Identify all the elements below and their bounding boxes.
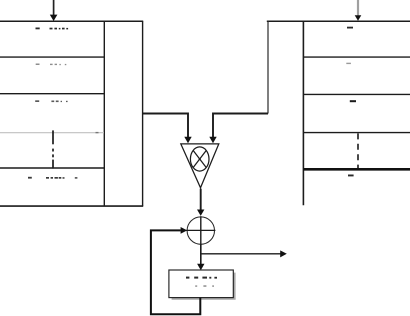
left table row 3 value label bbox=[35, 100, 67, 102]
adder (circle with plus) bbox=[186, 216, 215, 245]
right table dashed cell divider bbox=[357, 133, 359, 168]
right table row 3 value label bbox=[350, 100, 356, 102]
right table row 1 value label bbox=[347, 27, 353, 29]
wire: feedback loop from register to adder bbox=[151, 230, 200, 314]
multiplier (circle-X in inverted triangle) bbox=[181, 144, 219, 188]
left table row separator 3 (faint) bbox=[0, 132, 104, 133]
left table row 1 value label bbox=[36, 28, 69, 30]
wire: input arrow into right table bbox=[355, 0, 362, 21]
left table row separator 4 bbox=[0, 167, 104, 169]
register label line 2 bbox=[195, 285, 214, 287]
wire: right table to multiplier bbox=[209, 114, 268, 144]
feedback arrowhead into adder bbox=[181, 227, 188, 234]
right table row separator 1 bbox=[303, 56, 410, 58]
wire: output branch to the right bbox=[201, 250, 287, 257]
register box bbox=[169, 270, 233, 298]
right table (sample memory) top border bbox=[267, 20, 410, 22]
left table row 2 value label bbox=[36, 64, 67, 66]
right table thick row separator bbox=[303, 168, 410, 171]
left table row separator 2 bbox=[0, 93, 104, 95]
right table left edge bbox=[267, 21, 269, 113]
right table row 2 value label bbox=[346, 63, 351, 64]
left table column separator bbox=[103, 21, 105, 206]
left table ellipsis (vertical dots in row 4) bbox=[52, 130, 54, 168]
wire: input arrow into left table bbox=[50, 0, 58, 21]
register label line 1 bbox=[186, 277, 217, 279]
left table (coefficient memory) outer border bbox=[0, 21, 143, 206]
wire: multiplier to adder bbox=[197, 189, 204, 216]
right table row separator 3 bbox=[303, 132, 410, 134]
right table row 5 value label bbox=[348, 175, 354, 177]
wire: adder output down to register bbox=[197, 244, 204, 270]
right table row separator 2 bbox=[303, 93, 410, 95]
left table row 5 value label bbox=[28, 177, 77, 179]
left table row separator 1 bbox=[0, 56, 104, 58]
register box shadow bbox=[172, 273, 236, 300]
right table column separator bbox=[302, 21, 304, 205]
multiplier center dot bbox=[199, 158, 201, 160]
wire: left table to multiplier bbox=[143, 114, 192, 144]
